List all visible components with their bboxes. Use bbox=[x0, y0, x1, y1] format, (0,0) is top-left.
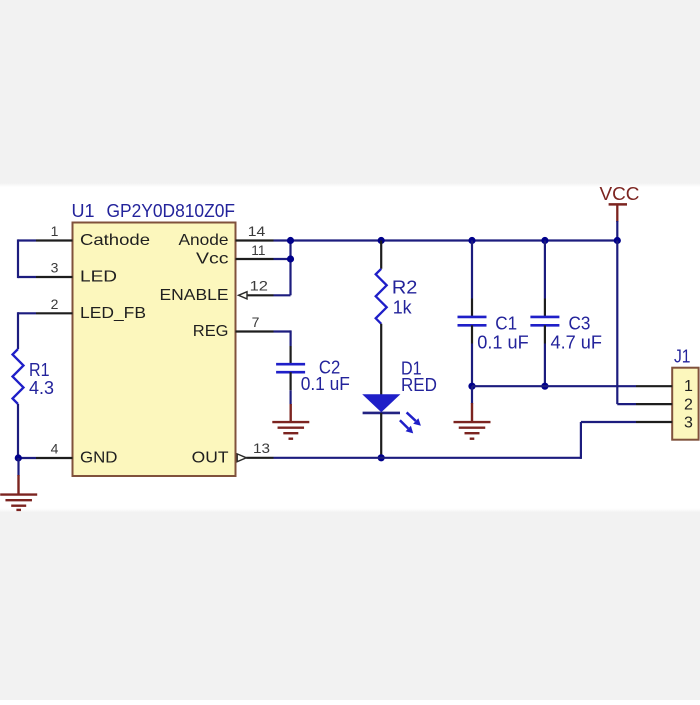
svg-text:OUT: OUT bbox=[192, 450, 229, 467]
C1 top lead bbox=[471, 299, 473, 317]
U1 pin 12 (ENABLE) stub with input arrow bbox=[247, 294, 274, 296]
C1 bottom lead bbox=[471, 325, 473, 343]
wire into pin 2 bbox=[18, 312, 36, 314]
C2 top lead bbox=[290, 346, 292, 364]
ground tail (red) bbox=[471, 403, 473, 423]
svg-text:VCC: VCC bbox=[600, 184, 640, 204]
capacitor C2 bbox=[276, 364, 305, 372]
wire REG pin7 to corner bbox=[274, 330, 291, 332]
svg-text:Anode: Anode bbox=[179, 232, 229, 249]
svg-text:Vcc: Vcc bbox=[196, 251, 229, 268]
node Anode/rail junction bbox=[287, 237, 294, 244]
node VCC/rail junction bbox=[614, 237, 621, 244]
capacitor C1 bbox=[458, 317, 487, 325]
wire to J1 pin 3 bbox=[581, 421, 636, 423]
junction node pin4/R1/ground bbox=[15, 454, 22, 461]
wire junction down to pin12 bbox=[289, 241, 291, 296]
C3 bottom lead bbox=[544, 325, 546, 343]
ground tail (red) bbox=[17, 475, 19, 496]
node Vcc junction bbox=[287, 255, 294, 262]
U1 pin 7 (REG) stub bbox=[236, 330, 274, 332]
svg-text:13: 13 bbox=[253, 440, 270, 456]
R2 to D1 lead bbox=[380, 324, 382, 395]
svg-text:11: 11 bbox=[251, 242, 265, 258]
svg-text:4.3: 4.3 bbox=[29, 378, 54, 398]
wire VCC branch down bbox=[616, 241, 618, 405]
ground symbol under C2 bbox=[272, 422, 309, 439]
wire down to ground (navy part) bbox=[17, 458, 19, 476]
svg-text:12: 12 bbox=[250, 278, 269, 294]
wire C2 to ground bbox=[290, 390, 292, 405]
svg-text:14: 14 bbox=[248, 223, 266, 239]
wire OUT up to J1 pin3 row bbox=[580, 422, 582, 459]
wire OUT line from pin13 bbox=[274, 457, 581, 459]
svg-text:R2: R2 bbox=[392, 277, 418, 297]
wire corner down to C2 bbox=[290, 330, 292, 346]
svg-text:C3: C3 bbox=[569, 314, 591, 334]
svg-text:RED: RED bbox=[401, 375, 437, 395]
svg-text:0.1 uF: 0.1 uF bbox=[477, 333, 528, 353]
J1 pin 2 stub bbox=[636, 403, 672, 405]
svg-text:C1: C1 bbox=[495, 314, 517, 334]
node C3/GND junction bbox=[541, 383, 548, 390]
svg-text:3: 3 bbox=[51, 260, 59, 276]
svg-text:LED_FB: LED_FB bbox=[80, 305, 146, 322]
wire VCC branch to J1 pin 2 bbox=[617, 403, 636, 405]
LED D1 bbox=[362, 394, 421, 433]
svg-text:4: 4 bbox=[51, 440, 59, 456]
IC U1 GP2Y0D810Z0F bbox=[73, 223, 236, 477]
capacitor C3 bbox=[530, 317, 559, 325]
wire C1 to GND node line bbox=[471, 344, 473, 387]
U1 pin 11 (Vcc) stub bbox=[236, 258, 274, 260]
wire into pin 12 bbox=[274, 294, 291, 296]
D1 cathode lead to OUT line bbox=[380, 413, 382, 458]
wire pin1 to left rail bbox=[18, 239, 36, 241]
svg-text:U1: U1 bbox=[72, 201, 95, 221]
wire C1 junction down toward ground bbox=[471, 386, 473, 404]
svg-text:2: 2 bbox=[684, 396, 693, 413]
svg-text:J1: J1 bbox=[674, 346, 691, 366]
svg-text:GP2Y0D810Z0F: GP2Y0D810Z0F bbox=[107, 201, 236, 221]
svg-text:0.1 uF: 0.1 uF bbox=[301, 374, 350, 394]
svg-text:GND: GND bbox=[80, 450, 118, 467]
svg-text:7: 7 bbox=[252, 314, 260, 330]
U1 pin 4 (GND) stub bbox=[36, 457, 73, 459]
connector J1 body bbox=[672, 368, 698, 440]
svg-text:3: 3 bbox=[684, 415, 693, 432]
node C1/GND junction bbox=[468, 383, 475, 390]
wire vertical pin1-pin3 loop bbox=[17, 239, 19, 278]
svg-text:R1: R1 bbox=[29, 360, 50, 380]
wire C3 to GND node line bbox=[544, 344, 546, 387]
node C1 top junction bbox=[468, 237, 475, 244]
power symbol VCC bbox=[600, 184, 640, 222]
wire R1 bottom to GND node bbox=[17, 404, 19, 458]
C3 top lead bbox=[544, 299, 546, 317]
wire GND node line to J1 pin 1 bbox=[472, 385, 636, 387]
C3 top lead wire bbox=[544, 241, 546, 299]
node D1/OUT junction bbox=[378, 454, 385, 461]
svg-text:REG: REG bbox=[193, 323, 229, 340]
U1 pin 3 (LED) stub bbox=[36, 276, 73, 278]
J1 pin 1 stub bbox=[636, 385, 672, 387]
C2 bottom lead bbox=[290, 372, 292, 390]
wire pin2 down to R1 bbox=[17, 312, 19, 349]
J1 pin 3 stub bbox=[636, 421, 672, 423]
resistor R1 bbox=[13, 349, 24, 404]
node C3 top junction bbox=[541, 237, 548, 244]
U1 pin 2 (LED_FB) stub bbox=[36, 312, 73, 314]
U1 pin 1 (Cathode) stub bbox=[36, 239, 73, 241]
svg-text:1: 1 bbox=[51, 223, 59, 239]
svg-text:Cathode: Cathode bbox=[80, 232, 150, 249]
svg-text:LED: LED bbox=[80, 269, 117, 286]
ground symbol left (pin 4) bbox=[0, 495, 37, 510]
svg-text:1k: 1k bbox=[393, 298, 413, 318]
wire VCC stem to rail bbox=[616, 221, 618, 241]
node R2 top junction bbox=[378, 237, 385, 244]
svg-text:ENABLE: ENABLE bbox=[160, 287, 229, 304]
R2 top lead bbox=[380, 241, 382, 269]
svg-text:1: 1 bbox=[684, 378, 693, 395]
wire pin11 to junction bbox=[274, 258, 291, 260]
svg-text:4.7 uF: 4.7 uF bbox=[551, 333, 603, 353]
wire pin14 to Anode junction bbox=[274, 239, 291, 241]
wire GND node to pin 4 bbox=[18, 457, 36, 459]
U1 pin 14 (Anode) stub bbox=[236, 239, 274, 241]
resistor R2 bbox=[376, 269, 387, 324]
U1 pin 13 (OUT) stub with output arrow bbox=[246, 457, 273, 459]
svg-text:2: 2 bbox=[51, 296, 59, 312]
C1 top lead wire bbox=[471, 241, 473, 299]
wire top VCC rail bbox=[291, 239, 618, 241]
ground symbol under C1 bbox=[454, 422, 491, 439]
wire into pin 3 bbox=[18, 276, 36, 278]
ground tail (red) bbox=[290, 404, 292, 423]
